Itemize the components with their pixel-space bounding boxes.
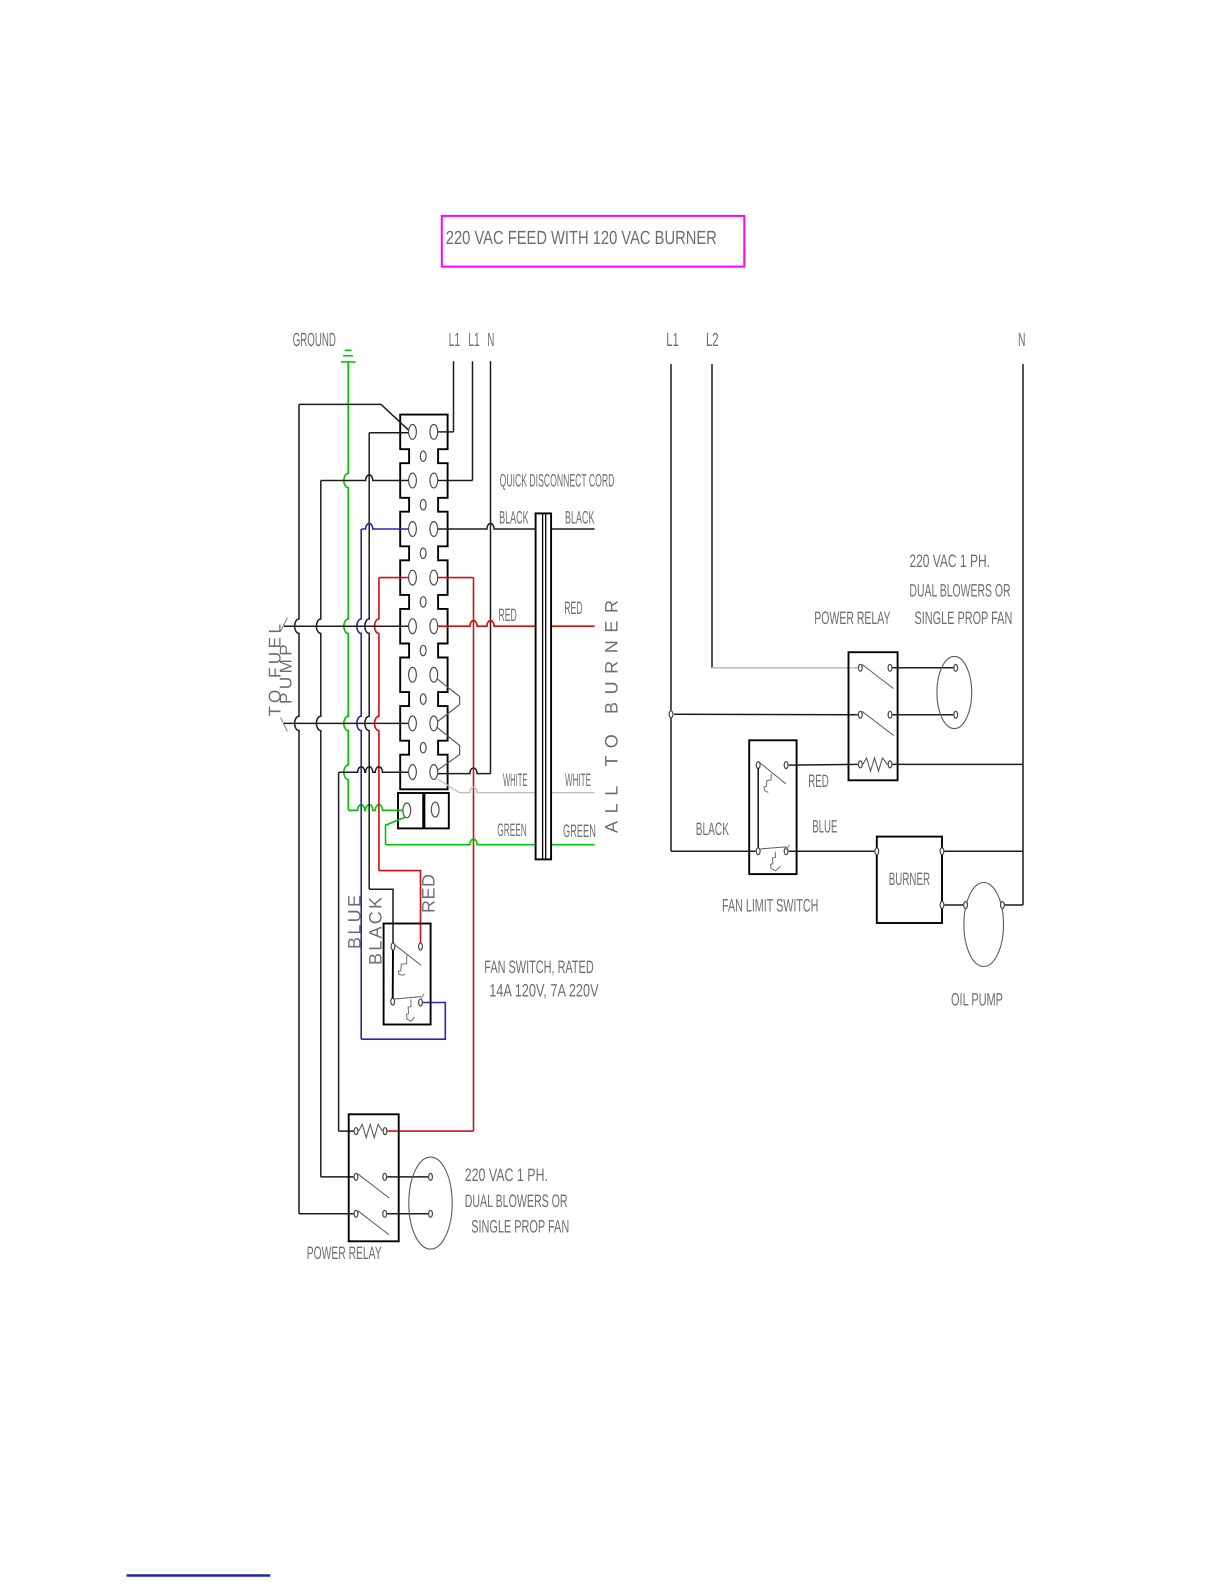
wire relay K2 coil to N bbox=[893, 763, 1023, 765]
fan motor M2 contacts bbox=[954, 664, 958, 671]
neck oval 2 bbox=[420, 500, 426, 510]
svg-text:BURNER: BURNER bbox=[889, 869, 930, 889]
wire red quick disconnect bbox=[438, 621, 595, 627]
svg-text:ALL TO BURNER: ALL TO BURNER bbox=[602, 600, 622, 833]
fan switch top arm bbox=[395, 945, 422, 966]
wire N right vertical bbox=[1022, 364, 1024, 905]
wire burner to oil pump bbox=[945, 904, 963, 906]
svg-text:RED: RED bbox=[808, 771, 829, 791]
svg-text:L2: L2 bbox=[706, 330, 719, 351]
svg-text:WHITE: WHITE bbox=[565, 770, 591, 790]
oil pump contacts bbox=[964, 902, 968, 909]
link underline bbox=[127, 1574, 271, 1576]
wire black to fan switch elbow bbox=[369, 889, 393, 944]
wire row2 branch vertical bbox=[316, 481, 320, 1177]
fan switch SW1 bbox=[384, 924, 431, 1025]
svg-text:RED: RED bbox=[418, 874, 438, 913]
node L1 junction bbox=[669, 711, 673, 718]
wire relay K1 to fan motor upper bbox=[387, 1176, 428, 1178]
wire L1 branch vertical to power relay bbox=[295, 404, 299, 1213]
terminal row4 ovals bbox=[409, 570, 417, 585]
neck oval 7 bbox=[420, 743, 426, 753]
fan motor M1 contacts bbox=[429, 1173, 433, 1180]
power relay K1 bbox=[349, 1114, 399, 1241]
relay K1 bottom contacts bbox=[354, 1210, 358, 1217]
neck oval 4 bbox=[420, 597, 426, 607]
wire ground green horizontal bbox=[348, 805, 403, 811]
wire blue row3 horizontal bbox=[361, 523, 408, 529]
wire ground green vertical bbox=[344, 362, 348, 810]
svg-text:POWER RELAY: POWER RELAY bbox=[814, 608, 890, 628]
fan limit bottom arm bbox=[760, 847, 786, 849]
svg-text:L1: L1 bbox=[666, 330, 679, 351]
ground block ovals bbox=[403, 803, 411, 818]
fan limit bottom contacts bbox=[756, 848, 760, 855]
svg-text:L1: L1 bbox=[468, 330, 480, 351]
fan switch bottom contacts bbox=[391, 998, 395, 1005]
wire L1 junction to relay K2 bbox=[674, 713, 858, 715]
relay K2 coil bbox=[858, 761, 862, 768]
svg-text:GREEN: GREEN bbox=[497, 820, 527, 840]
wire row8 left bbox=[339, 767, 409, 773]
wire white quick disconnect bbox=[438, 779, 460, 793]
power relay K2 bbox=[849, 652, 898, 780]
svg-text:GROUND: GROUND bbox=[293, 330, 336, 351]
relay K2 top contacts bbox=[858, 664, 862, 671]
svg-text:BLACK: BLACK bbox=[499, 508, 528, 528]
fan limit top arm bbox=[760, 763, 786, 784]
fan limit top thermal bbox=[764, 774, 771, 793]
svg-text:220 VAC 1 PH.: 220 VAC 1 PH. bbox=[465, 1165, 548, 1185]
wire to fuel pump row5 bbox=[284, 625, 409, 627]
svg-text:WHITE: WHITE bbox=[503, 770, 528, 790]
terminal strip bbox=[400, 415, 447, 790]
neck oval 3 bbox=[420, 548, 426, 558]
wire relay K2 to fan motor lower bbox=[893, 714, 954, 716]
svg-text:DUAL BLOWERS OR: DUAL BLOWERS OR bbox=[909, 581, 1010, 601]
wire oil pump to N bbox=[1005, 904, 1023, 906]
svg-text:RED: RED bbox=[499, 605, 517, 625]
svg-text:RED: RED bbox=[564, 598, 582, 618]
svg-text:220 VAC FEED WITH 120 VAC BUR: 220 VAC FEED WITH 120 VAC BURNER bbox=[446, 228, 717, 249]
wire blue elbow to fan switch bbox=[361, 1003, 445, 1040]
wire red row4 right to long drop bbox=[438, 577, 474, 579]
terminal row3 ovals bbox=[409, 522, 417, 537]
svg-text:220 VAC 1 PH.: 220 VAC 1 PH. bbox=[909, 551, 990, 571]
svg-text:14A 120V, 7A 220V: 14A 120V, 7A 220V bbox=[489, 981, 598, 1001]
svg-text:L1: L1 bbox=[449, 330, 461, 351]
svg-text:N: N bbox=[1018, 330, 1026, 351]
neck oval 6 bbox=[420, 694, 426, 704]
relay K1 middle contacts bbox=[354, 1173, 358, 1180]
wire red vertical to fan switch bbox=[374, 578, 378, 871]
fan switch bottom arm bbox=[395, 997, 421, 999]
terminal row6 ovals bbox=[409, 667, 417, 682]
svg-text:OIL PUMP: OIL PUMP bbox=[951, 990, 1003, 1010]
fan switch top thermal bbox=[398, 955, 407, 975]
fan motor M2 bbox=[937, 656, 972, 728]
svg-text:DUAL BLOWERS OR: DUAL BLOWERS OR bbox=[465, 1191, 568, 1211]
wire burner to N bbox=[945, 850, 1023, 852]
svg-text:PUMP: PUMP bbox=[277, 644, 296, 704]
terminal row2 ovals bbox=[409, 473, 417, 488]
oil pump motor bbox=[964, 883, 1004, 967]
relay K2 middle arm bbox=[862, 711, 894, 735]
wire to power relay bottom contact bbox=[299, 1213, 353, 1215]
fan motor M1 bbox=[409, 1157, 452, 1249]
burner box bbox=[877, 837, 942, 923]
wire black quick disconnect bbox=[438, 523, 595, 529]
terminal row7 ovals bbox=[409, 716, 417, 731]
burner contacts bbox=[875, 848, 879, 855]
neck oval 1 bbox=[420, 451, 426, 461]
svg-text:N: N bbox=[487, 330, 494, 351]
ground terminal block bbox=[398, 793, 423, 828]
fan switch bottom thermal bbox=[407, 999, 415, 1021]
fan switch top contacts bbox=[391, 943, 395, 950]
wire L1 feed drop bbox=[453, 361, 455, 432]
wire red long vertical bbox=[473, 578, 475, 1132]
wire L1 second to row2 bbox=[438, 480, 473, 482]
fan limit bottom thermal bbox=[771, 852, 781, 871]
svg-text:QUICK DISCONNECT CORD: QUICK DISCONNECT CORD bbox=[500, 471, 615, 491]
wire relay K1 to fan motor lower bbox=[387, 1213, 428, 1215]
terminal row1 ovals bbox=[409, 425, 417, 440]
wire coil branch vertical bbox=[338, 772, 340, 1131]
svg-text:BLUE: BLUE bbox=[344, 895, 364, 949]
fan limit switch bbox=[749, 740, 796, 874]
title box bbox=[442, 216, 745, 267]
wire green quick disconnect bbox=[386, 817, 405, 844]
wire to fuel pump row7 bbox=[284, 722, 409, 724]
relay K2 top arm bbox=[862, 664, 894, 688]
neck oval 5 bbox=[420, 645, 426, 655]
node corner VK bbox=[365, 433, 369, 890]
svg-text:BLACK: BLACK bbox=[696, 819, 729, 839]
relay K2 middle contacts bbox=[858, 711, 862, 718]
quick disconnect connector bbox=[536, 513, 552, 859]
svg-text:BLACK: BLACK bbox=[565, 508, 595, 528]
fan limit top contacts bbox=[756, 762, 760, 769]
wire L1 to fan limit switch bbox=[671, 850, 756, 852]
wire row2 horizontal bbox=[321, 475, 409, 481]
relay K1 bottom arm bbox=[358, 1211, 390, 1235]
wire top left to row1 bbox=[299, 404, 409, 430]
wire L2 to relay K2 (gray) bbox=[712, 667, 858, 669]
svg-text:SINGLE PROP FAN: SINGLE PROP FAN bbox=[471, 1217, 569, 1237]
wire to power relay coil left bbox=[339, 1130, 354, 1132]
wire L1 second drop bbox=[472, 361, 474, 480]
jumper row6-row7 bbox=[436, 678, 460, 722]
svg-text:POWER RELAY: POWER RELAY bbox=[307, 1243, 382, 1263]
svg-text:GREEN: GREEN bbox=[563, 821, 596, 841]
svg-text:SINGLE PROP FAN: SINGLE PROP FAN bbox=[915, 608, 1013, 628]
svg-text:BLACK: BLACK bbox=[366, 897, 386, 965]
wire fan limit to relay coil bbox=[789, 763, 858, 766]
svg-text:BLUE: BLUE bbox=[812, 817, 837, 837]
wire blue vertical bbox=[357, 529, 361, 1039]
svg-text:FAN LIMIT SWITCH: FAN LIMIT SWITCH bbox=[722, 896, 818, 916]
jumper row7-row8 bbox=[436, 726, 460, 770]
wire black drop to fan switch top bbox=[369, 432, 408, 434]
wire red elbow into fan switch bbox=[379, 871, 421, 945]
wire N to row8 bbox=[438, 768, 491, 774]
relay K1 coil bbox=[354, 1128, 358, 1135]
relay K1 middle arm bbox=[358, 1174, 390, 1198]
svg-text:FAN SWITCH, RATED: FAN SWITCH, RATED bbox=[484, 957, 593, 977]
fan switch pole link bbox=[392, 951, 394, 999]
wire L1 right vertical bbox=[670, 364, 672, 851]
wire red row4 left horizontal bbox=[379, 577, 409, 579]
terminal row5 ovals bbox=[409, 619, 417, 634]
ground bbox=[345, 349, 352, 351]
wire to power relay middle contact bbox=[321, 1176, 354, 1178]
wire N drop bbox=[490, 361, 492, 773]
terminal row8 ovals bbox=[409, 765, 417, 780]
fan limit pole link bbox=[757, 768, 759, 849]
wire L1 feed to row1 bbox=[438, 431, 454, 433]
wire fan limit to burner bbox=[789, 850, 875, 852]
wire red to power relay coil bbox=[388, 1130, 474, 1132]
wire relay K2 to fan motor upper bbox=[893, 667, 954, 669]
wire L2 right vertical bbox=[711, 364, 713, 668]
